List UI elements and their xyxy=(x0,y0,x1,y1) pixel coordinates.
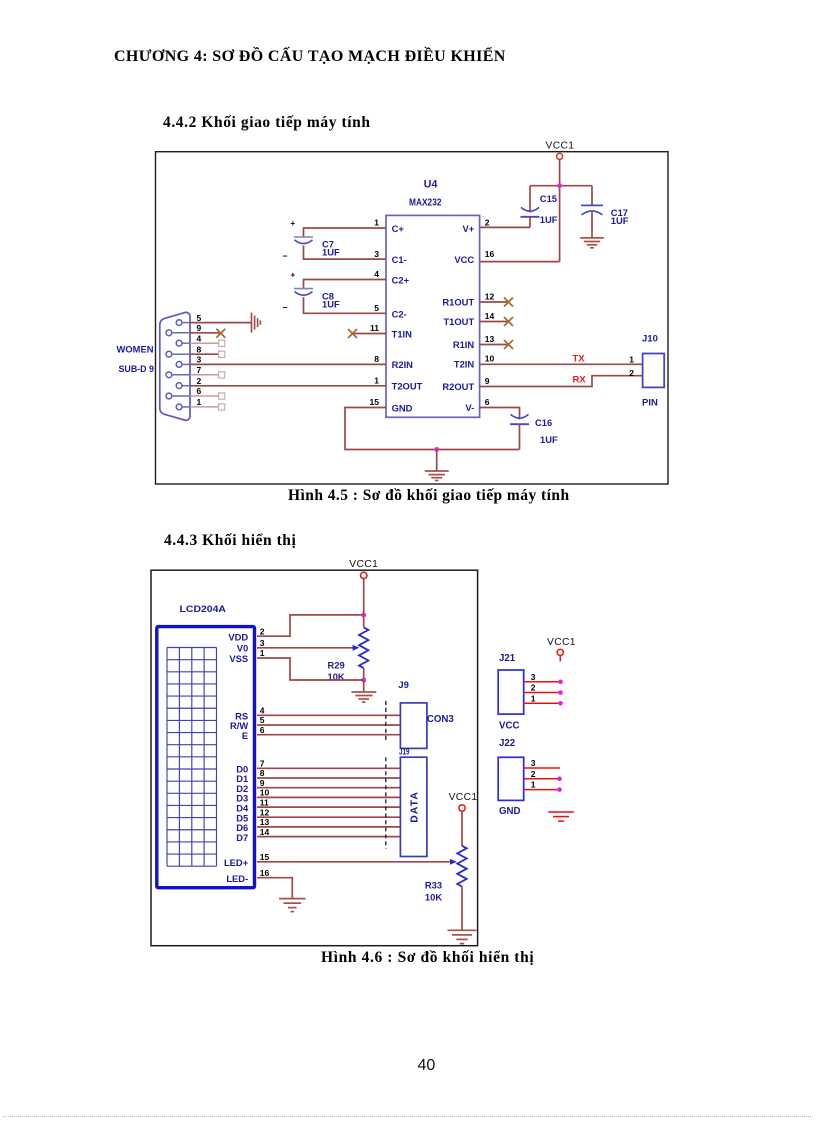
no-connect X pin12 xyxy=(504,298,513,307)
svg-text:8: 8 xyxy=(374,354,379,364)
svg-text:3: 3 xyxy=(531,758,536,768)
no-connect X pin13 xyxy=(504,340,513,349)
wire R2OUT to J10 pin2 (RX net) xyxy=(480,376,643,387)
junction VDD branch xyxy=(361,613,366,618)
wire J21 pin3 xyxy=(524,681,561,683)
wire V0 to R29 wiper xyxy=(257,647,353,649)
svg-text:C1-: C1- xyxy=(392,254,407,265)
wire C7 top pin1 xyxy=(304,228,387,237)
power symbol VCC1 circle (fig2) xyxy=(361,572,367,578)
svg-text:VCC: VCC xyxy=(454,254,474,265)
no-connect X T1IN xyxy=(348,329,357,338)
svg-text:1: 1 xyxy=(531,693,536,703)
wire VCC1 to R33 top xyxy=(461,811,463,846)
svg-text:R33: R33 xyxy=(425,880,442,891)
ground below LED- xyxy=(279,899,306,912)
junction J22 pin2 xyxy=(557,777,562,782)
svg-text:PIN: PIN xyxy=(642,398,658,409)
svg-text:2: 2 xyxy=(197,376,202,386)
capacitor C8 xyxy=(294,289,313,296)
section heading 4.4.2 xyxy=(163,114,371,132)
terminal square DB9 pin4 xyxy=(219,340,225,346)
svg-text:D7: D7 xyxy=(236,832,248,843)
wire U4 pin13 stub xyxy=(480,344,509,346)
svg-text:1: 1 xyxy=(374,376,379,386)
wire C15 bottom to pin2 xyxy=(480,217,530,228)
svg-text:7: 7 xyxy=(260,759,265,769)
svg-text:VCC1: VCC1 xyxy=(546,141,575,152)
wire D4 xyxy=(257,806,400,808)
wire R/W to CON3 xyxy=(257,724,400,726)
svg-text:1UF: 1UF xyxy=(540,214,558,225)
footer dotted rule xyxy=(3,1116,813,1117)
LCD pin names xyxy=(224,631,249,884)
capacitor C16 xyxy=(510,414,529,424)
wire DB9 pin1 stub xyxy=(190,406,219,408)
svg-text:9: 9 xyxy=(260,778,265,788)
svg-text:–: – xyxy=(283,302,288,312)
wire J21 pin2 xyxy=(524,692,561,694)
junction J21 pin3 xyxy=(558,680,563,685)
wire LED+ to R33 wiper xyxy=(257,861,450,863)
svg-text:12: 12 xyxy=(260,807,270,817)
wire J22 pin3 xyxy=(524,767,560,769)
svg-text:VSS: VSS xyxy=(229,653,248,664)
svg-text:LED+: LED+ xyxy=(224,857,249,868)
svg-text:C2-: C2- xyxy=(392,308,407,319)
J10 pin numbers xyxy=(629,354,634,378)
wire U4 pin12 stub xyxy=(480,301,509,303)
DB9 inner pin stubs xyxy=(172,323,190,407)
svg-text:C16: C16 xyxy=(535,417,552,428)
svg-text:4: 4 xyxy=(197,333,202,343)
junction J21 pin1 xyxy=(558,701,563,706)
IC U4 MAX232 body xyxy=(386,215,480,417)
svg-text:R2OUT: R2OUT xyxy=(442,381,474,392)
wire DB9 pin6 stub xyxy=(190,395,219,397)
terminal square DB9 pin7 xyxy=(219,372,225,378)
svg-text:VCC1: VCC1 xyxy=(349,559,378,570)
wire C17 to ground xyxy=(591,212,593,238)
svg-text:R2IN: R2IN xyxy=(392,359,414,370)
svg-text:LED-: LED- xyxy=(226,873,248,884)
junction VSS branch xyxy=(361,678,366,683)
svg-text:MAX232: MAX232 xyxy=(409,197,442,208)
chapter header xyxy=(114,48,506,66)
svg-text:V0: V0 xyxy=(237,642,248,653)
DB9 pin numbers xyxy=(197,313,202,407)
U4 right pin numbers xyxy=(485,218,495,408)
power symbol VCC1 circle xyxy=(557,153,563,159)
svg-text:DATA: DATA xyxy=(410,791,421,823)
svg-text:2: 2 xyxy=(485,218,490,228)
svg-text:1UF: 1UF xyxy=(611,215,629,226)
svg-text:R1IN: R1IN xyxy=(453,339,475,350)
svg-text:C2+: C2+ xyxy=(392,274,410,285)
capacitor C15 xyxy=(521,207,540,216)
wire DB9 pin7 stub xyxy=(190,374,219,376)
terminal square DB9 pin1 xyxy=(219,404,225,410)
svg-text:16: 16 xyxy=(260,868,270,878)
svg-text:T1IN: T1IN xyxy=(392,328,413,339)
svg-text:LCD204A: LCD204A xyxy=(180,604,227,614)
wire RS to CON3 xyxy=(257,714,400,716)
svg-text:9: 9 xyxy=(197,323,202,333)
svg-text:CON3: CON3 xyxy=(427,714,455,725)
section heading 4.4.3 xyxy=(164,532,296,550)
ground sideways at DB9 pin5 xyxy=(252,313,261,333)
LCD pin numbers xyxy=(260,626,270,878)
svg-text:9: 9 xyxy=(485,376,490,386)
svg-text:C15: C15 xyxy=(540,193,557,204)
connector DB9 outline xyxy=(160,312,190,420)
svg-text:8: 8 xyxy=(197,344,202,354)
wire T2IN to J10 pin1 (TX net) xyxy=(480,363,643,365)
figure 4.5 frame xyxy=(156,152,669,484)
svg-text:1: 1 xyxy=(374,218,379,228)
wire C7 bottom pin3 xyxy=(304,246,387,260)
wire C17 top branch xyxy=(591,186,593,206)
wire D3 xyxy=(257,796,400,798)
svg-text:6: 6 xyxy=(197,386,202,396)
svg-text:13: 13 xyxy=(485,334,495,344)
svg-text:4: 4 xyxy=(260,706,265,716)
svg-text:8: 8 xyxy=(260,768,265,778)
svg-text:1: 1 xyxy=(629,354,634,364)
svg-text:J19: J19 xyxy=(399,745,410,756)
svg-text:5: 5 xyxy=(197,313,202,323)
resistor R29 (pot) zigzag xyxy=(359,627,368,668)
ground below R29 xyxy=(352,692,377,702)
svg-text:12: 12 xyxy=(485,292,495,302)
svg-text:1UF: 1UF xyxy=(322,247,340,258)
wire D6 xyxy=(257,826,400,828)
junction GND net xyxy=(434,447,439,452)
wire DB9 pin3 to U4 R2IN xyxy=(190,363,386,365)
svg-text:3: 3 xyxy=(374,249,379,259)
connector DATA body xyxy=(400,757,427,856)
svg-text:3: 3 xyxy=(260,638,265,648)
svg-text:1UF: 1UF xyxy=(540,434,558,445)
wire D5 xyxy=(257,816,400,818)
U4 left pin numbers xyxy=(370,218,380,408)
svg-text:T1OUT: T1OUT xyxy=(443,316,474,327)
ground GND net xyxy=(425,471,449,481)
svg-text:SUB-D 9: SUB-D 9 xyxy=(119,364,155,374)
U4 right pin names xyxy=(442,223,474,413)
wire C8 bottom pin5 xyxy=(304,297,387,313)
svg-text:10K: 10K xyxy=(425,891,442,902)
caption figure 4.5 xyxy=(288,487,570,505)
wire D2 xyxy=(257,787,400,789)
wire VSS branch xyxy=(257,658,364,680)
wire DB9 pin2 to U4 T2OUT xyxy=(190,385,386,387)
svg-text:3: 3 xyxy=(531,672,536,682)
svg-text:2: 2 xyxy=(531,683,536,693)
U4 left pin names xyxy=(392,223,423,413)
svg-text:RX: RX xyxy=(573,375,587,386)
bus slash dashed line data group xyxy=(385,757,387,849)
wire junction to ground xyxy=(436,450,438,471)
ground symbol near J22 (red) xyxy=(548,812,574,821)
wire DB9 pin8 stub xyxy=(190,353,219,355)
terminal square DB9 pin8 xyxy=(219,351,225,357)
wire C8 top pin4 xyxy=(304,280,387,289)
svg-text:2: 2 xyxy=(531,769,536,779)
svg-text:10: 10 xyxy=(485,354,495,364)
LCD character grid xyxy=(167,648,217,867)
svg-text:2: 2 xyxy=(260,626,265,636)
wire J22 pin2 xyxy=(524,778,560,780)
wire VCC1 branch horizontal xyxy=(530,185,592,187)
wire D1 xyxy=(257,777,400,779)
svg-text:7: 7 xyxy=(197,365,202,375)
svg-text:R1OUT: R1OUT xyxy=(442,297,474,308)
wire VCC1 down to R29 xyxy=(363,579,365,628)
wire U4 pin6 V- to C16 xyxy=(480,408,520,420)
svg-text:V-: V- xyxy=(465,402,474,413)
svg-text:GND: GND xyxy=(499,806,521,817)
svg-text:14: 14 xyxy=(485,311,495,321)
svg-text:C+: C+ xyxy=(392,223,405,234)
wire C16 bottom xyxy=(519,424,521,449)
svg-text:5: 5 xyxy=(374,303,379,313)
power symbol VCC1 circle (R33) xyxy=(459,805,465,811)
svg-text:WOMEN: WOMEN xyxy=(117,344,154,354)
capacitor C17 xyxy=(581,205,603,215)
svg-text:TX: TX xyxy=(573,353,586,364)
wire E to CON3 xyxy=(257,734,400,736)
svg-text:6: 6 xyxy=(485,397,490,407)
wire DB9 pin5 to ground xyxy=(190,322,252,324)
wire VDD branch xyxy=(257,615,364,636)
wire DB9 pin9 stub xyxy=(190,332,221,334)
wire LED- to ground xyxy=(257,878,292,899)
wire J21 pin1 xyxy=(524,702,561,704)
wire C15 top branch xyxy=(529,186,531,213)
svg-text:11: 11 xyxy=(260,797,269,807)
terminal square DB9 pin6 xyxy=(219,393,225,399)
DB9 pin circles left column xyxy=(166,330,172,399)
svg-text:VCC1: VCC1 xyxy=(547,637,576,648)
svg-text:1: 1 xyxy=(197,397,202,407)
junction J21 pin2 xyxy=(558,690,563,695)
connector J22 body xyxy=(498,757,524,800)
svg-text:V+: V+ xyxy=(462,223,474,234)
resistor R33 (pot) zigzag xyxy=(457,846,466,887)
capacitor C7 xyxy=(294,237,313,244)
svg-text:VDD: VDD xyxy=(228,631,248,642)
connector J21 body xyxy=(498,670,524,714)
connector CON3 body xyxy=(400,703,427,749)
svg-text:1: 1 xyxy=(260,648,265,658)
ground below C17 xyxy=(580,238,604,248)
svg-text:+: + xyxy=(291,219,296,228)
svg-text:13: 13 xyxy=(260,817,270,827)
junction VCC1 branch xyxy=(557,183,562,188)
svg-text:15: 15 xyxy=(370,397,380,407)
connector J10 body xyxy=(643,354,665,388)
no-connect X pin14 xyxy=(504,317,513,326)
R33 wiper arrow xyxy=(450,859,457,865)
wire VCC pin16 xyxy=(480,261,560,263)
svg-text:5: 5 xyxy=(260,715,265,725)
svg-text:+: + xyxy=(291,271,296,280)
no-connect X DB9 pin9 xyxy=(216,329,225,338)
svg-text:U4: U4 xyxy=(424,178,438,190)
svg-text:J22: J22 xyxy=(499,738,515,749)
svg-text:T2IN: T2IN xyxy=(454,359,475,370)
svg-text:15: 15 xyxy=(260,852,270,862)
svg-text:T2OUT: T2OUT xyxy=(392,381,423,392)
wire U4 GND pin15 path xyxy=(345,408,520,450)
page number xyxy=(418,1057,436,1075)
svg-text:E: E xyxy=(242,730,248,741)
junction J22 pin1 xyxy=(557,787,562,792)
power symbol VCC1 circle (J21) xyxy=(557,649,563,655)
svg-text:–: – xyxy=(283,251,288,261)
wire D7 xyxy=(257,836,400,838)
svg-text:10: 10 xyxy=(260,788,270,798)
figure 4.6 frame xyxy=(151,570,478,946)
caption figure 4.6 xyxy=(321,949,534,967)
svg-text:14: 14 xyxy=(260,827,270,837)
wire VCC1 vertical to pin16 row xyxy=(559,159,561,261)
DB9 pin circles right column xyxy=(176,320,182,410)
svg-text:J10: J10 xyxy=(642,334,658,345)
svg-text:1: 1 xyxy=(531,780,536,790)
wire J22 pin1 xyxy=(524,789,560,791)
svg-text:J21: J21 xyxy=(499,653,516,664)
svg-text:J9: J9 xyxy=(398,679,409,690)
svg-text:4: 4 xyxy=(374,269,379,279)
wire DB9 pin4 stub xyxy=(190,342,219,344)
wire R29 bottom to ground xyxy=(363,680,365,692)
svg-text:2: 2 xyxy=(629,368,634,378)
J21 pin numbers xyxy=(531,672,536,704)
wire T1IN stub xyxy=(353,333,387,335)
svg-text:1UF: 1UF xyxy=(322,298,340,309)
svg-text:R29: R29 xyxy=(328,659,345,670)
J22 pin numbers xyxy=(531,758,536,790)
svg-text:VCC: VCC xyxy=(499,721,519,732)
wire VCC1 stub (J21) xyxy=(559,656,561,662)
svg-text:GND: GND xyxy=(392,402,413,413)
svg-text:11: 11 xyxy=(370,323,379,333)
svg-text:VCC1: VCC1 xyxy=(449,792,478,803)
LCD module TT2 body xyxy=(157,627,255,888)
svg-text:16: 16 xyxy=(485,249,495,259)
R29 wiper arrow xyxy=(353,645,360,651)
svg-text:6: 6 xyxy=(260,725,265,735)
wire D0 xyxy=(257,767,400,769)
svg-text:3: 3 xyxy=(197,355,202,365)
wire U4 pin14 stub xyxy=(480,321,509,323)
ground below R33 xyxy=(448,930,477,943)
bus slash dashed line control group xyxy=(385,701,387,743)
